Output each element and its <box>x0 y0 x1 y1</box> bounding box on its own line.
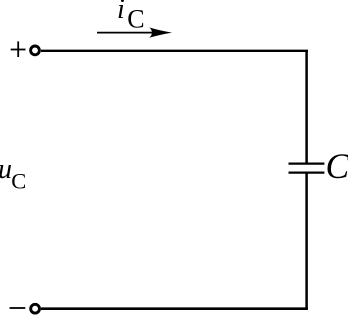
svg-text:C: C <box>127 5 144 34</box>
svg-text:i: i <box>117 0 125 25</box>
minus terminal polarity mark <box>10 307 26 309</box>
svg-text:C: C <box>326 146 348 186</box>
wire bottom <box>41 307 308 310</box>
svg-text:u: u <box>0 154 12 185</box>
label uC <box>0 154 26 193</box>
label iC <box>117 0 145 34</box>
current arrow iC <box>97 27 172 37</box>
wire top <box>41 50 308 52</box>
terminal node top-left <box>31 46 40 55</box>
wire right lower <box>305 173 308 309</box>
terminal node bottom-left <box>31 304 40 313</box>
wire right upper <box>305 51 308 164</box>
plus terminal polarity mark <box>11 41 26 57</box>
capacitor C plates <box>289 164 325 173</box>
svg-text:C: C <box>11 168 26 193</box>
